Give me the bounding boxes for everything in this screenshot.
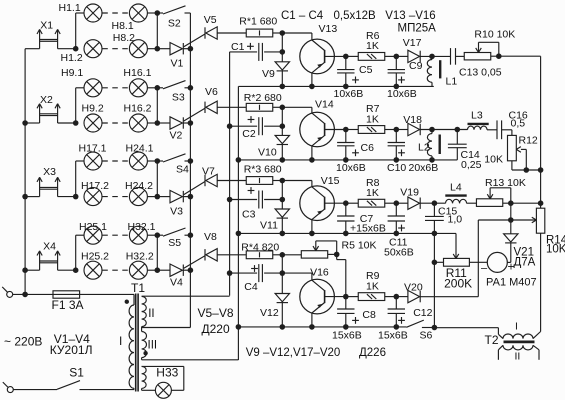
- resistor R*1: [246, 29, 273, 37]
- switch S6: [406, 320, 423, 327]
- wire R11 node down to S6: [433, 262, 435, 327]
- svg-text:H17.2: H17.2: [81, 180, 109, 192]
- diode V6: [204, 102, 206, 113]
- transformer T2 winding II: [503, 345, 533, 350]
- svg-text:V13 –V16: V13 –V16: [385, 10, 436, 22]
- svg-text:X1: X1: [40, 20, 53, 32]
- thyristor V3: [157, 196, 170, 198]
- svg-text:R*1 680: R*1 680: [239, 16, 277, 28]
- terminal mains top: [7, 291, 13, 297]
- svg-text:Д226: Д226: [359, 347, 386, 359]
- svg-text:10x6В: 10x6В: [334, 88, 364, 100]
- transformer T1 winding I (primary): [133, 294, 135, 305]
- capacitor C8: [345, 297, 347, 309]
- svg-text:R*3 680: R*3 680: [244, 164, 282, 176]
- capacitor C15: [433, 203, 435, 216]
- svg-text:10x6В: 10x6В: [336, 162, 366, 174]
- node R13/V21: [510, 203, 512, 220]
- svg-text:+: +: [508, 260, 515, 274]
- node base stage3: [343, 200, 349, 206]
- wire switch column group2: [156, 88, 158, 123]
- svg-text:H25.2: H25.2: [81, 251, 109, 263]
- wire C15 node down to R11: [433, 233, 435, 262]
- svg-text:H9.1: H9.1: [61, 67, 83, 79]
- svg-text:Д7А: Д7А: [514, 257, 536, 269]
- svg-text:10K: 10K: [546, 244, 565, 256]
- svg-text:III: III: [148, 340, 158, 352]
- wire R8 out: [385, 202, 397, 204]
- wire emitter V15: [311, 219, 313, 233]
- svg-text:R10 10K: R10 10K: [474, 29, 515, 41]
- resistor R*4: [246, 251, 273, 259]
- transformer T1 core: [135, 294, 137, 392]
- svg-text:II: II: [148, 308, 154, 320]
- svg-text:C12: C12: [413, 307, 432, 319]
- svg-text:1K: 1K: [366, 280, 379, 292]
- wire R*4 out: [273, 254, 283, 256]
- wire collector V14: [311, 107, 313, 113]
- transformer T1 winding III: [141, 328, 143, 332]
- svg-text:C4: C4: [244, 281, 258, 293]
- svg-text:L4: L4: [450, 182, 462, 194]
- thyristor V1: [157, 48, 170, 50]
- svg-text:КУ201Л: КУ201Л: [50, 343, 93, 357]
- svg-text:V1: V1: [171, 58, 184, 70]
- wire S6 to T2: [434, 327, 498, 329]
- capacitor C2: [230, 125, 258, 127]
- diode V21: [510, 220, 512, 234]
- transistor V15: [300, 186, 335, 221]
- svg-text:I: I: [515, 321, 518, 333]
- lamp H9.2: [84, 114, 102, 132]
- capacitor C10: [395, 130, 397, 143]
- svg-text:II: II: [515, 351, 521, 363]
- wire R9 out: [385, 296, 397, 298]
- coupling bus to T1 winding II: [229, 52, 231, 296]
- svg-text:S1: S1: [69, 366, 84, 380]
- capacitor C11: [395, 203, 397, 216]
- rail stage1: [238, 85, 433, 87]
- svg-text:МП25А: МП25А: [398, 23, 437, 35]
- potentiometer R12: [511, 130, 513, 136]
- svg-text:1K: 1K: [366, 113, 379, 125]
- svg-text:V11: V11: [260, 220, 278, 232]
- wire V20 out: [420, 296, 478, 298]
- lamp chain second: [129, 188, 147, 206]
- svg-text:H32.2: H32.2: [126, 251, 154, 263]
- svg-text:H1.2: H1.2: [61, 52, 83, 64]
- connector X2: [39, 104, 41, 123]
- wire R10 out: [491, 55, 499, 57]
- svg-text:Т1: Т1: [131, 281, 145, 295]
- svg-text:C8: C8: [362, 309, 376, 321]
- resistor R*3: [246, 177, 273, 185]
- svg-text:H16.1: H16.1: [123, 67, 151, 79]
- wire emitter V14: [311, 146, 313, 160]
- lamp H8.1: [129, 4, 147, 22]
- lamp H33: [155, 382, 171, 398]
- dashed lamps chain row A group3: [102, 160, 129, 162]
- wire V8 to R*4: [217, 254, 246, 256]
- capacitor C7: [345, 203, 347, 216]
- diode V20: [396, 296, 408, 298]
- svg-text:H24.1: H24.1: [126, 143, 154, 155]
- svg-text:V5–V8: V5–V8: [198, 306, 234, 320]
- switch S2: [157, 12, 163, 14]
- lamp H25.2: [84, 261, 102, 279]
- svg-text:10K: 10K: [484, 154, 503, 166]
- wire R*1 out: [273, 32, 283, 34]
- svg-text:C6: C6: [361, 142, 375, 154]
- svg-text:V7: V7: [202, 166, 215, 178]
- svg-text:H1.1: H1.1: [59, 2, 81, 14]
- wire mains top: [13, 293, 53, 295]
- transistor V16: [300, 279, 335, 314]
- svg-text:S3: S3: [172, 92, 185, 104]
- lamp H24.1: [129, 152, 147, 170]
- svg-text:L2: L2: [418, 142, 430, 154]
- node bus group1: [188, 46, 194, 52]
- dashed lamps chain row B group1: [102, 48, 129, 50]
- wire rowB right group4: [148, 269, 158, 271]
- wire switch column group1: [156, 13, 158, 49]
- svg-text:H32.1: H32.1: [128, 221, 156, 233]
- node group4 left junction: [25, 269, 39, 271]
- svg-text:S4: S4: [176, 164, 189, 176]
- resistor R7 1K: [346, 129, 359, 131]
- diode V10: [281, 107, 283, 135]
- wire rowB right group3: [148, 196, 158, 198]
- svg-text:C2: C2: [242, 128, 256, 140]
- left supply bus: [24, 49, 26, 295]
- capacitor C3: [230, 199, 258, 201]
- riser stage4 output to wiper node: [477, 220, 479, 297]
- lamp H17.1: [84, 152, 102, 170]
- capacitor C13: [450, 48, 452, 65]
- svg-text:H17.1: H17.1: [79, 143, 107, 155]
- wire collector row stage3: [282, 180, 312, 182]
- resistor R8 1K: [346, 202, 359, 204]
- svg-text:0,5x12В: 0,5x12В: [334, 10, 377, 22]
- wire rowB right group2: [148, 122, 158, 124]
- wire V6 to R*2: [217, 106, 246, 108]
- resistor R*2: [246, 103, 273, 111]
- svg-text:V10: V10: [258, 147, 277, 159]
- svg-text:V2: V2: [170, 130, 183, 142]
- inductor L3: [447, 129, 468, 131]
- svg-text:10x6В: 10x6В: [387, 88, 417, 100]
- svg-text:R13 10K: R13 10K: [485, 177, 526, 189]
- svg-text:0,25: 0,25: [461, 159, 482, 171]
- dashed lamps chain row A group2: [102, 87, 129, 89]
- node bus group2: [188, 85, 194, 91]
- node group3 left junction: [25, 196, 39, 198]
- capacitor C9: [395, 56, 397, 69]
- dashed lamps chain row A group1: [102, 12, 129, 14]
- svg-text:C1: C1: [231, 41, 245, 53]
- svg-text:R12: R12: [519, 135, 538, 147]
- svg-text:V4: V4: [170, 277, 183, 289]
- svg-text:R*4 820: R*4 820: [241, 242, 279, 254]
- wire rowB right group1: [148, 48, 158, 50]
- wire rowA right group3: [148, 160, 158, 162]
- svg-text:V14: V14: [315, 99, 334, 111]
- transformer T1 winding H33: [142, 366, 147, 388]
- switch S5: [157, 234, 163, 236]
- svg-text:РА1 М407: РА1 М407: [486, 277, 537, 289]
- svg-text:C5: C5: [359, 64, 373, 76]
- wire V7 to R*3: [217, 180, 246, 182]
- capacitor C4: [230, 272, 258, 274]
- svg-text:V20: V20: [404, 282, 423, 294]
- inductor L1: [431, 56, 433, 59]
- emitter rail bus to T1 winding III: [237, 86, 239, 360]
- node base stage2: [343, 127, 349, 133]
- svg-text:V15: V15: [321, 175, 340, 187]
- lamp H17.2: [84, 188, 102, 206]
- wire rowA right group2: [148, 87, 158, 89]
- wire collector V15: [311, 181, 313, 188]
- diode V17: [396, 55, 408, 57]
- dashed lamps chain row B group3: [102, 196, 129, 198]
- meter PA1: [487, 252, 507, 272]
- svg-text:+15x6В: +15x6В: [350, 223, 386, 235]
- wire R12 out: [511, 161, 513, 170]
- wire R11 out to meter: [469, 261, 487, 263]
- rail stage3: [238, 232, 434, 234]
- svg-text:H24.2: H24.2: [125, 180, 153, 192]
- svg-text:S5: S5: [168, 237, 181, 249]
- svg-text:V6: V6: [205, 86, 218, 98]
- svg-text:1K: 1K: [366, 40, 379, 52]
- node V18 out: [420, 129, 447, 131]
- svg-text:0,5: 0,5: [511, 118, 526, 130]
- svg-text:15x6В: 15x6В: [378, 330, 408, 342]
- svg-text:V19: V19: [400, 187, 419, 199]
- svg-text:1K: 1K: [366, 187, 379, 199]
- fuse F1: [53, 291, 80, 298]
- lamp H16.1: [129, 79, 147, 97]
- rail stage4: [238, 326, 406, 328]
- diode V19: [396, 202, 408, 204]
- node group2 left junction: [25, 122, 39, 124]
- wire R7 out: [385, 129, 397, 131]
- switch S1: [13, 389, 57, 391]
- svg-text:I: I: [119, 334, 122, 348]
- svg-text:S6: S6: [420, 330, 433, 342]
- svg-text:200K: 200K: [444, 277, 472, 291]
- wire collector row stage4 (C4 node): [282, 272, 312, 274]
- dashed lamps chain row B group4: [102, 269, 129, 271]
- potentiometer R13: [467, 202, 477, 204]
- lamp chain second: [129, 261, 147, 279]
- node base stage1: [343, 54, 349, 60]
- potentiometer R5 10K: [282, 254, 301, 256]
- svg-text:H8.1: H8.1: [112, 20, 134, 32]
- svg-text:X4: X4: [43, 241, 56, 253]
- wire rowA right group1: [148, 12, 158, 14]
- transformer T2 core: [504, 340, 535, 343]
- svg-text:C1 – C4: C1 – C4: [281, 10, 324, 22]
- terminal mains bottom: [7, 387, 13, 393]
- svg-text:1,0: 1,0: [448, 214, 463, 226]
- diode V8: [204, 249, 206, 260]
- dashed lamps chain row A group4: [102, 234, 129, 236]
- node V17 out: [420, 55, 450, 57]
- lamp H1.1: [84, 4, 102, 22]
- wire R*3 out: [273, 180, 283, 182]
- wire V5 to R*1: [217, 32, 246, 34]
- wire R13 out: [503, 202, 541, 204]
- svg-text:L1: L1: [446, 76, 458, 88]
- wire collector V13: [311, 33, 313, 40]
- svg-text:V3: V3: [170, 206, 183, 218]
- capacitor C1: [230, 51, 258, 53]
- inductor L2: [431, 130, 433, 134]
- node base stage4: [343, 294, 349, 300]
- svg-text:V8: V8: [204, 231, 217, 243]
- svg-text:S2: S2: [168, 18, 181, 30]
- wire emitter V16: [311, 313, 313, 327]
- wire switch column group4: [156, 235, 158, 270]
- capacitor C12: [395, 297, 397, 309]
- transformer T2 winding I: [497, 328, 499, 335]
- switch S4: [157, 160, 163, 162]
- wire collector V16: [311, 273, 313, 280]
- wire fuse to T1: [80, 293, 134, 295]
- svg-text:X2: X2: [40, 94, 53, 106]
- lamp H32.1: [129, 226, 147, 244]
- svg-text:20x6В: 20x6В: [409, 162, 439, 174]
- wire R5 to V16 base: [336, 254, 338, 259]
- transistor V13: [300, 39, 335, 74]
- svg-text:R*2 680: R*2 680: [244, 92, 282, 104]
- connector X1: [39, 29, 41, 48]
- svg-text:H25.1: H25.1: [79, 221, 107, 233]
- svg-text:Д220: Д220: [202, 322, 230, 336]
- svg-text:V12: V12: [260, 307, 279, 319]
- lamp chain second: [129, 114, 147, 132]
- svg-text:Н33: Н33: [156, 366, 178, 380]
- wire group3 rowA left: [58, 196, 76, 198]
- lamp H1.2: [84, 40, 102, 58]
- main thyristor bus: [189, 13, 191, 328]
- svg-text:L3: L3: [471, 110, 483, 122]
- svg-text:15x6В: 15x6В: [332, 330, 362, 342]
- svg-text:–: –: [481, 263, 488, 275]
- node bus group3: [188, 158, 194, 164]
- svg-text:F1 3А: F1 3А: [52, 298, 84, 312]
- wire R6 out: [385, 55, 397, 57]
- wire group4 rowA left: [58, 269, 76, 271]
- wire group2 rowA left: [58, 122, 76, 124]
- wire switch column group3: [156, 161, 158, 197]
- capacitor C5: [345, 56, 347, 69]
- lamp chain second: [129, 40, 147, 58]
- wire emitter V13: [311, 73, 313, 87]
- resistor R6 1K: [346, 55, 359, 57]
- wire rowA right group4: [148, 234, 158, 236]
- svg-text:H8.2: H8.2: [113, 32, 135, 44]
- wire R*2 out: [273, 106, 283, 108]
- svg-text:~ 220В: ~ 220В: [4, 335, 42, 349]
- diode V5: [204, 27, 206, 38]
- svg-text:C13 0,05: C13 0,05: [459, 67, 502, 79]
- svg-text:Т2: Т2: [485, 333, 499, 347]
- capacitor C6: [345, 130, 347, 143]
- svg-text:V16: V16: [310, 266, 329, 278]
- svg-text:H9.2: H9.2: [82, 103, 104, 115]
- connector X4: [39, 251, 41, 270]
- wire group1 rowA left: [58, 48, 76, 50]
- svg-text:C3: C3: [242, 209, 256, 221]
- svg-text:V9 –V12,V17–V20: V9 –V12,V17–V20: [246, 347, 341, 359]
- svg-text:R5 10K: R5 10K: [342, 240, 377, 252]
- svg-text:V17: V17: [403, 37, 422, 49]
- transformer T1 winding II: [142, 296, 147, 326]
- thyristor V4: [157, 269, 170, 271]
- diode V12: [281, 255, 283, 294]
- wiper feed wire C15 to R11: [434, 232, 456, 234]
- svg-text:50x6В: 50x6В: [384, 247, 414, 259]
- svg-text:X3: X3: [43, 166, 56, 178]
- svg-text:V5: V5: [204, 14, 217, 26]
- wire collector row stage2: [282, 106, 312, 108]
- svg-text:V13: V13: [319, 23, 338, 35]
- node bus group4: [188, 232, 194, 238]
- transistor V14: [300, 112, 335, 147]
- rail stage2: [238, 159, 457, 161]
- diode V7: [204, 175, 206, 186]
- diode V18: [396, 129, 408, 131]
- capacitor C16: [496, 120, 498, 139]
- node V19 out: [420, 202, 445, 204]
- dashed lamps chain row B group2: [102, 122, 129, 124]
- resistor R9 1K: [346, 296, 359, 298]
- svg-text:H16.2: H16.2: [124, 103, 152, 115]
- thyristor V2: [157, 122, 170, 124]
- connector X3: [39, 177, 41, 196]
- lamp H25.1: [84, 226, 102, 244]
- resistor R11 200K: [434, 261, 443, 263]
- potentiometer R10: [464, 53, 491, 60]
- wire collector row stage1: [282, 32, 312, 34]
- svg-text:V9: V9: [262, 68, 275, 80]
- inductor L4: [446, 199, 467, 203]
- diode V9: [281, 33, 283, 62]
- diode V11: [281, 181, 283, 210]
- potentiometer R14: [540, 56, 542, 208]
- wiper line R14: [478, 219, 536, 221]
- svg-text:V18: V18: [403, 114, 422, 126]
- lamp H9.1: [84, 79, 102, 97]
- svg-text:C10: C10: [387, 162, 406, 174]
- capacitor C14: [455, 127, 461, 133]
- node group1 left junction: [25, 48, 39, 50]
- switch S3: [157, 87, 163, 89]
